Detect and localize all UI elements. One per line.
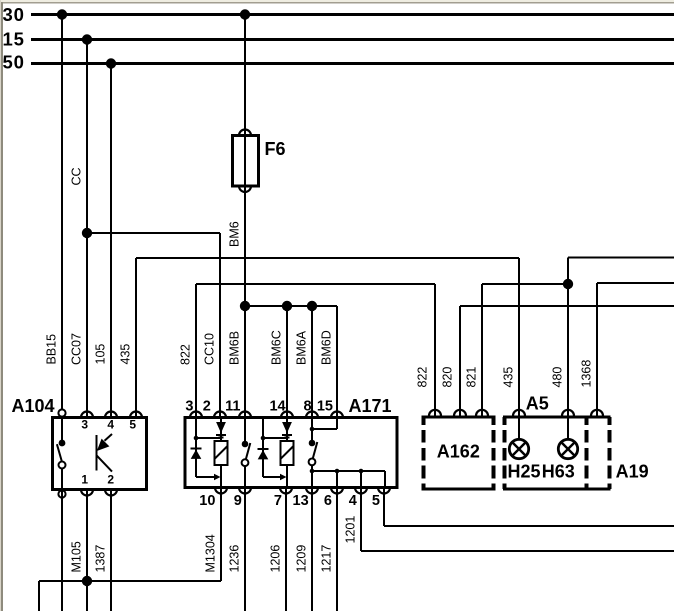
svg-text:1: 1	[81, 472, 88, 486]
svg-text:BM6A: BM6A	[294, 330, 308, 365]
wire from A104 top-left pin straight down to edge	[61, 490, 63, 611]
label 1236	[227, 545, 241, 573]
pin circle A104 top unnumbered	[58, 409, 65, 416]
svg-text:3: 3	[81, 418, 88, 432]
svg-text:BB15: BB15	[44, 334, 58, 365]
svg-text:1201: 1201	[343, 516, 357, 544]
wire M105 from A104 pin 1 down	[86, 490, 88, 611]
pin 11 A171	[225, 399, 251, 418]
pin A19	[591, 410, 603, 416]
svg-text:A162: A162	[437, 441, 480, 461]
pin 10 A171	[199, 488, 227, 510]
pin 13 A171	[293, 488, 318, 510]
bus 50	[3, 52, 674, 73]
wire CC from bus 15 down to A104 pin 3	[86, 40, 88, 418]
node BM6/BM6C	[282, 301, 292, 311]
svg-text:F6: F6	[265, 139, 286, 159]
pin A5 for lamp H25	[513, 410, 525, 416]
label CC10	[202, 333, 216, 365]
label 435 at A104	[118, 344, 132, 365]
component A5 headlamp unit	[503, 394, 611, 490]
label BM6C	[269, 330, 283, 365]
diode relay 2 flyback	[258, 449, 269, 460]
wire BM6A down to A171 pin 8	[311, 306, 313, 417]
wire M1304 from A171 pin 10 down then left then down to edge	[39, 488, 221, 611]
label 1217	[319, 545, 333, 573]
label 435 at A5	[501, 367, 515, 388]
pin 14 A171	[269, 399, 293, 418]
svg-text:50: 50	[3, 52, 25, 73]
pin 5 A104	[129, 412, 142, 432]
node BM6/BM6B	[240, 301, 250, 311]
svg-text:1209: 1209	[294, 545, 308, 573]
label BB15	[44, 334, 58, 365]
svg-text:15: 15	[3, 28, 25, 49]
pin 9 A171	[234, 488, 251, 510]
svg-text:BM6D: BM6D	[319, 330, 333, 365]
wire 1387 from A104 pin 2 down	[110, 490, 112, 611]
node pin 4 stub	[359, 469, 364, 474]
wire 1201 from A171 pin 4 down then right to edge	[361, 488, 674, 552]
node bus15/CC	[82, 34, 92, 44]
pin 8 A171	[304, 399, 318, 418]
node pin 6 stub	[335, 469, 340, 474]
wire 435 from A104 pin 5 up over to A5 lamp H25	[136, 258, 519, 417]
ignition switch symbol inside A104	[97, 434, 113, 472]
lamp H25	[508, 417, 541, 482]
svg-text:1387: 1387	[93, 545, 107, 573]
svg-text:822: 822	[178, 344, 192, 365]
svg-text:A5: A5	[526, 394, 549, 414]
wire BM6 distribution line	[245, 305, 337, 307]
window border top	[0, 0, 674, 4]
wire 821 from A162 up to node on 480	[482, 284, 568, 417]
node bus30/BB15	[57, 9, 67, 19]
pin A5 for lamp H63	[562, 410, 574, 416]
wire 1206 from A171 pin 7 down	[285, 488, 287, 611]
label BM6	[227, 221, 241, 247]
label 820	[440, 367, 454, 388]
component A162 dashed box	[422, 417, 496, 489]
label 1209	[294, 545, 308, 573]
wire pin 15 branch over to switch 2	[312, 418, 337, 429]
wire BM6C down to A171 pin 14	[286, 306, 288, 417]
wire BB15 from bus 30 down to A104	[61, 15, 63, 410]
svg-text:14: 14	[269, 399, 285, 415]
bus 15	[3, 28, 674, 49]
svg-text:5: 5	[129, 418, 136, 432]
pin 3 A171	[185, 399, 202, 418]
svg-text:5: 5	[372, 493, 380, 509]
svg-text:A104: A104	[12, 396, 55, 416]
wire 1236 from A171 pin 9 down	[244, 488, 246, 611]
svg-text:822: 822	[415, 367, 429, 388]
pin circle A104 bottom unnumbered	[58, 490, 65, 497]
node CC/CC10	[82, 228, 92, 238]
relay 2 flyback branch	[263, 417, 287, 480]
label CC07	[69, 333, 83, 365]
wire CC10 branch to A171 pin 2	[87, 233, 220, 417]
pin 2 A171	[203, 399, 226, 418]
svg-text:11: 11	[225, 399, 240, 415]
label BM6B	[227, 331, 241, 365]
bus 30	[3, 4, 674, 25]
svg-text:CC07: CC07	[69, 333, 83, 365]
pin 2 A162	[454, 410, 466, 416]
pin 4 A171	[349, 488, 367, 510]
label 1201	[343, 516, 357, 544]
svg-text:BM6C: BM6C	[269, 330, 283, 365]
svg-text:1368: 1368	[579, 360, 593, 388]
wire 480 from right edge down to A5 lamp H63	[568, 258, 674, 417]
label 1387	[93, 545, 107, 573]
pin 2 A104	[105, 472, 117, 495]
svg-text:4: 4	[107, 418, 114, 432]
node bus50/105	[106, 58, 116, 68]
component A171 relay unit	[185, 396, 397, 488]
pin 1 A104	[81, 472, 93, 495]
svg-text:M105: M105	[69, 541, 83, 572]
svg-text:13: 13	[293, 493, 309, 509]
pin 3 A162	[476, 410, 488, 416]
label M1304	[203, 534, 217, 572]
label 1206	[268, 545, 282, 573]
svg-text:8: 8	[304, 399, 312, 415]
pin 3 A104	[81, 412, 93, 432]
svg-text:105: 105	[93, 344, 107, 365]
svg-text:3: 3	[185, 399, 193, 415]
svg-text:6: 6	[324, 493, 332, 509]
node M105/M1304	[82, 576, 92, 586]
diode relay 1 flyback	[191, 448, 202, 459]
svg-text:435: 435	[501, 367, 515, 388]
svg-text:M1304: M1304	[203, 534, 217, 572]
relay coil 1	[215, 417, 228, 488]
pin 6 A171	[324, 488, 343, 510]
pin 5 A171	[372, 488, 390, 510]
svg-text:821: 821	[464, 367, 478, 388]
svg-text:4: 4	[349, 493, 357, 509]
svg-text:435: 435	[118, 344, 132, 365]
svg-text:A19: A19	[616, 462, 649, 482]
wire BM6B down to A171 pin 11	[244, 306, 246, 417]
svg-text:A171: A171	[349, 396, 392, 416]
switch relay 1 (pin 11 to pin 9)	[242, 417, 251, 488]
pin 7 A171	[274, 488, 292, 510]
pin 4 A104	[105, 412, 117, 432]
node 480/821	[563, 279, 573, 289]
wire 1368 from right edge down to A19	[597, 283, 674, 416]
fuse F6	[233, 130, 286, 193]
wire 822 from A171 pin 3 up over to A162	[196, 284, 435, 417]
label 480	[550, 367, 564, 388]
wire 105 from bus 50 down to A104 pin 4	[110, 64, 112, 418]
relay coil 2	[281, 417, 294, 488]
svg-text:10: 10	[199, 493, 215, 509]
node switch2/pin13	[310, 469, 315, 474]
svg-text:H25: H25	[508, 462, 541, 482]
label BM6D	[319, 330, 333, 365]
pin 1 A162	[429, 410, 441, 416]
wire from A171 pin 5 down then right to edge	[384, 488, 674, 527]
node relay1 branch	[194, 436, 199, 441]
label CC	[69, 167, 83, 185]
svg-text:9: 9	[234, 493, 242, 509]
node bus30/BM6	[240, 9, 250, 19]
svg-text:15: 15	[317, 399, 333, 415]
label BM6A	[294, 330, 308, 365]
lamp H63	[542, 417, 578, 482]
svg-text:2: 2	[107, 472, 114, 486]
relay 1 feed branch from pin 3	[196, 417, 221, 480]
component A104 ignition switch unit	[12, 396, 147, 490]
label 1368	[579, 360, 593, 388]
window border left	[0, 0, 3, 611]
svg-text:820: 820	[440, 367, 454, 388]
svg-text:30: 30	[3, 4, 25, 25]
svg-text:7: 7	[274, 493, 282, 509]
svg-text:BM6: BM6	[227, 221, 241, 247]
pin 15 A171	[317, 399, 343, 418]
svg-text:1236: 1236	[227, 545, 241, 573]
label 822 at A171	[178, 344, 192, 365]
wire 820 from right edge to A162	[460, 306, 674, 417]
wire 1209 from A171 pin 13 down	[311, 488, 313, 611]
wire switch 2 output bus to pins 13 6 4 5	[312, 471, 385, 488]
wire BM6D down to A171 pin 15	[336, 306, 338, 417]
node relay2 branch	[261, 436, 266, 441]
svg-text:480: 480	[550, 367, 564, 388]
label 821	[464, 367, 478, 388]
svg-text:CC: CC	[69, 167, 83, 185]
svg-text:2: 2	[203, 399, 211, 415]
wire 1217 from A171 pin 6 down	[336, 488, 338, 611]
svg-text:1206: 1206	[268, 545, 282, 573]
label 822 at A162	[415, 367, 429, 388]
label 105	[93, 344, 107, 365]
svg-text:1217: 1217	[319, 545, 333, 573]
svg-text:H63: H63	[542, 462, 575, 482]
node pin8/pin15 junction	[310, 427, 315, 432]
component A19 dashed box	[587, 417, 649, 489]
switch relay 2 (pin 8 to pin 13)	[309, 417, 318, 488]
node BM6/BM6A	[307, 301, 317, 311]
svg-text:BM6B: BM6B	[227, 331, 241, 365]
label M105	[69, 541, 83, 572]
wire BM6 from bus 30 through fuse F6 down to distribution node	[244, 15, 246, 307]
svg-text:CC10: CC10	[202, 333, 216, 365]
switch inside A104	[57, 416, 66, 491]
